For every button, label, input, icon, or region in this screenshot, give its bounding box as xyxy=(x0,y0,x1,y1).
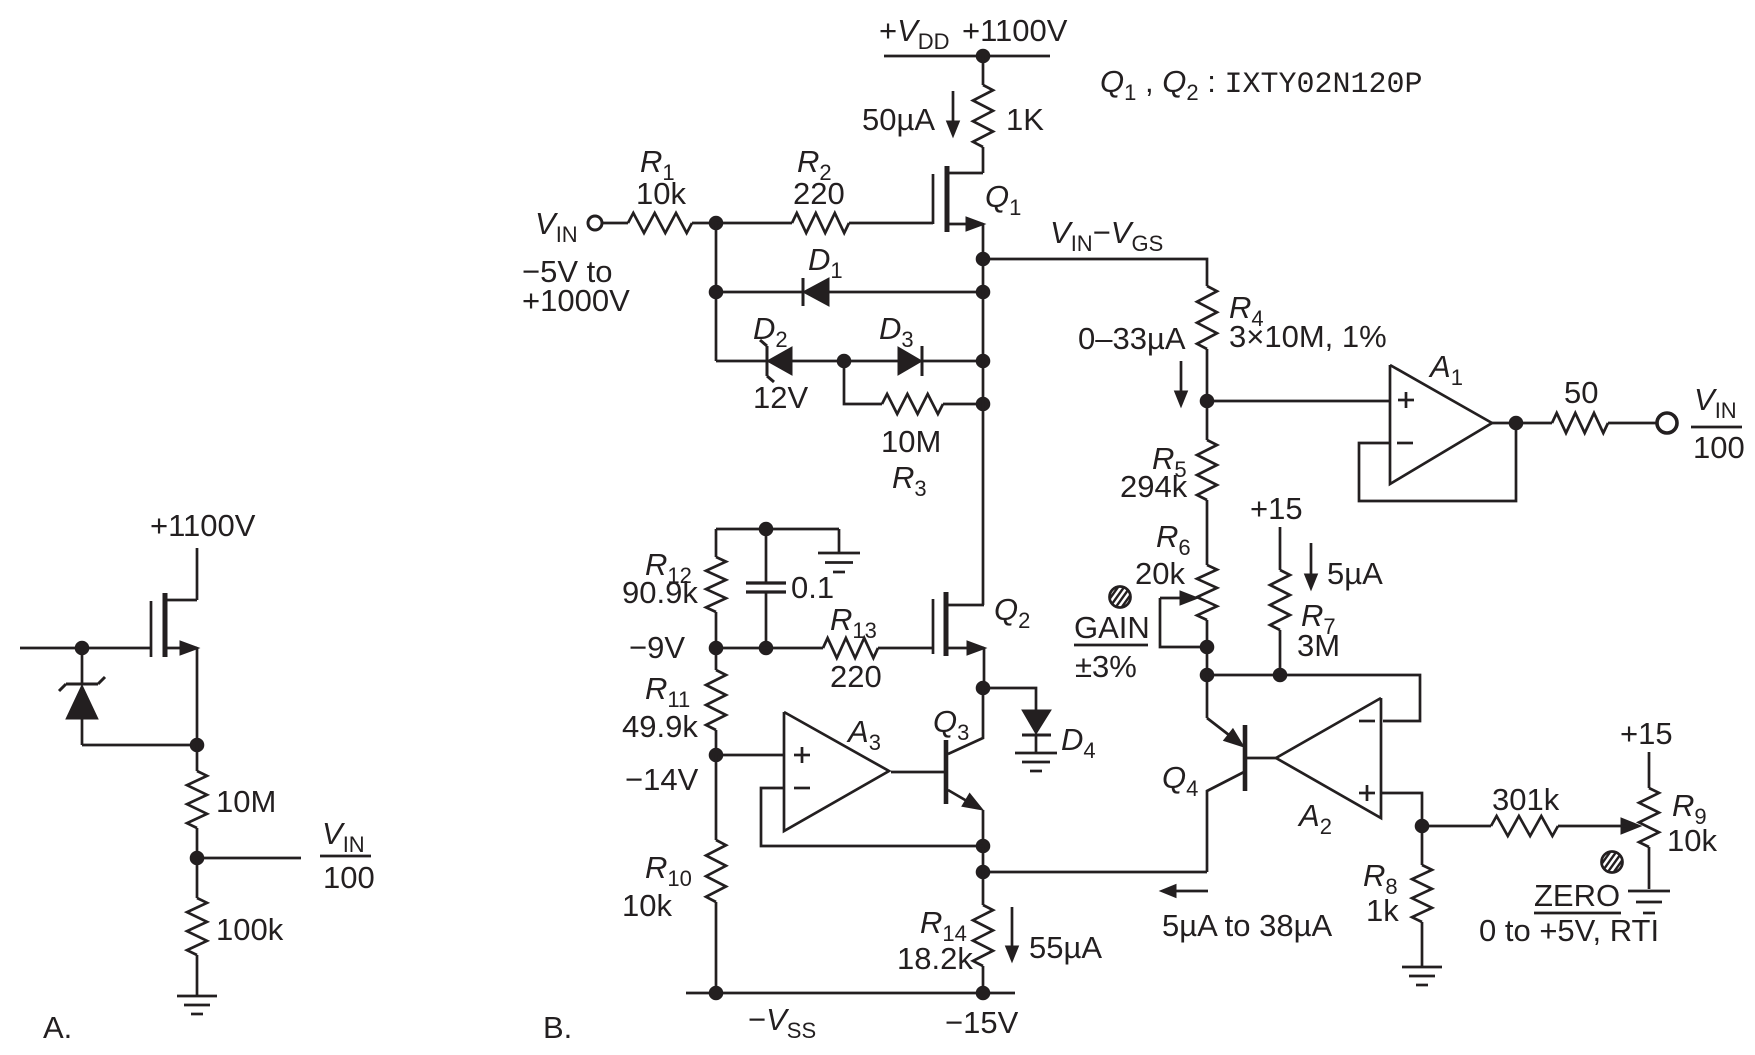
output fraction VIN/100 (B) xyxy=(1691,382,1745,465)
label R4 xyxy=(1229,290,1264,331)
MOSFET Q2 xyxy=(933,592,986,656)
resistor R7 xyxy=(1270,570,1290,630)
label R13 xyxy=(830,602,877,643)
svg-text:301k: 301k xyxy=(1492,782,1560,817)
resistor R1 xyxy=(628,213,692,233)
diode D1 xyxy=(803,278,829,306)
resistor R14 xyxy=(973,905,993,966)
label 220 (R13) xyxy=(830,659,882,694)
ground bias xyxy=(818,553,860,572)
wire R10 to rail xyxy=(715,902,718,993)
label Q4 xyxy=(1162,760,1198,801)
node +VDD rail xyxy=(976,49,990,63)
svg-text:−9V: −9V xyxy=(629,630,685,665)
label 10M xyxy=(216,784,276,819)
label R11 xyxy=(645,671,690,712)
wire Q1 source down xyxy=(982,224,985,259)
op-amp A3 xyxy=(784,712,889,831)
resistor 50 xyxy=(1552,413,1608,433)
label -14V xyxy=(625,762,699,797)
supply rail +VDD xyxy=(884,55,1050,58)
node D2/D3/R3 xyxy=(837,354,851,368)
label D3 xyxy=(879,311,914,352)
wire node to 100k xyxy=(196,858,199,898)
MOSFET Q1 xyxy=(933,166,985,232)
label R10 xyxy=(645,850,692,891)
label -15V xyxy=(945,1005,1019,1040)
wire gate input (part A) xyxy=(20,647,151,650)
wire Q4 collector to R14 node xyxy=(983,871,1207,874)
label +15 (R9) xyxy=(1620,716,1673,751)
wire R12 to -9V node xyxy=(715,612,718,648)
node A1 output xyxy=(1509,416,1523,430)
label R5 xyxy=(1152,441,1187,482)
label Q2 xyxy=(994,592,1030,633)
svg-text:+1000V: +1000V xyxy=(522,283,630,318)
label 50 xyxy=(1564,375,1598,410)
label 5uA to 38uA xyxy=(1162,908,1332,943)
wire R2 to Q1 gate xyxy=(849,222,933,225)
output fraction VIN/100 (part A) xyxy=(320,816,375,895)
wire input column down xyxy=(715,223,718,361)
wire R3 left xyxy=(844,361,882,404)
label 3x10M xyxy=(1229,319,1387,354)
resistor 100k (part A) xyxy=(187,898,207,955)
label -5V to xyxy=(522,254,613,289)
svg-text:−15V: −15V xyxy=(945,1005,1019,1040)
label 1K xyxy=(1006,102,1044,137)
wire A2 plus xyxy=(1381,793,1422,826)
label 0 to +5V RTI xyxy=(1479,913,1659,948)
resistor R13 xyxy=(823,638,878,658)
svg-text:220: 220 xyxy=(830,659,882,694)
wire top bias xyxy=(716,528,839,531)
label VIN-VGS xyxy=(1050,215,1163,256)
label 18.2k xyxy=(897,941,973,976)
label 3M xyxy=(1297,628,1340,663)
svg-text:+15: +15 xyxy=(1620,716,1673,751)
node rail left xyxy=(709,986,723,1000)
wire node to A1+ xyxy=(1207,400,1390,403)
label R14 xyxy=(920,905,967,946)
wire -9V to R13 xyxy=(716,647,823,650)
wire gnd stub xyxy=(838,529,841,552)
diode D3 xyxy=(898,346,922,376)
label 10k (R9) xyxy=(1667,823,1717,858)
label ZERO xyxy=(1534,878,1621,913)
label 55uA xyxy=(1029,930,1102,965)
node cap top xyxy=(759,522,773,536)
label 50uA xyxy=(862,102,935,137)
label 1k (R8) xyxy=(1366,893,1399,928)
wire D2 to node xyxy=(792,360,844,363)
svg-text:0 to +5V, RTI: 0 to +5V, RTI xyxy=(1479,913,1659,948)
wire rail to 1K xyxy=(982,56,985,85)
node -9V cap xyxy=(759,641,773,655)
node rail right xyxy=(976,986,990,1000)
terminal output B xyxy=(1657,413,1677,433)
svg-text:220: 220 xyxy=(793,176,845,211)
resistor R8 xyxy=(1412,865,1432,922)
node VIN-VGS xyxy=(976,252,990,266)
label 0.1 xyxy=(791,570,834,605)
current arrow 0-33uA xyxy=(1175,361,1188,407)
label 10M (R3) xyxy=(881,424,941,459)
wiper R6 xyxy=(1160,591,1207,647)
label R9 xyxy=(1672,788,1707,829)
svg-text:20k: 20k xyxy=(1135,556,1185,591)
terminal VIN xyxy=(588,216,602,230)
label D1 xyxy=(808,242,843,283)
wire FET A source down xyxy=(196,648,199,745)
label D2 xyxy=(753,311,788,352)
wire -14V to R10 xyxy=(715,755,718,840)
label R2 xyxy=(797,144,832,185)
label 100k xyxy=(216,912,284,947)
wire VIN to R1 xyxy=(602,222,628,225)
wire bus to A2 minus xyxy=(1207,675,1420,721)
wire D1 left xyxy=(716,291,803,294)
zener diode (part A) xyxy=(59,677,105,745)
potentiometer R6 xyxy=(1197,565,1217,620)
wire node to R8 xyxy=(1421,826,1424,865)
wire R7 to bus xyxy=(1279,630,1282,675)
svg-text:10k: 10k xyxy=(622,888,672,923)
screw symbol GAIN xyxy=(1101,583,1139,611)
resistor R10 xyxy=(706,840,726,902)
svg-text:90.9k: 90.9k xyxy=(622,575,698,610)
svg-text:50µA: 50µA xyxy=(862,102,935,137)
resistor R3 xyxy=(882,394,943,414)
label Q3 xyxy=(933,704,969,745)
svg-text:1k: 1k xyxy=(1366,893,1399,928)
caption A. xyxy=(43,1010,72,1045)
label 294k xyxy=(1120,469,1188,504)
label Q1 xyxy=(985,179,1021,220)
current arrow 55uA xyxy=(1006,907,1019,962)
wire D1 right xyxy=(829,291,983,294)
wire A1 feedback xyxy=(1359,423,1516,501)
svg-text:ZERO: ZERO xyxy=(1534,878,1620,913)
label R7 xyxy=(1301,598,1336,639)
svg-text:100k: 100k xyxy=(216,912,284,947)
wire Q3 emitter to R14 xyxy=(982,846,985,905)
label 301k xyxy=(1492,782,1560,817)
label 5uA xyxy=(1327,556,1383,591)
svg-text:+15: +15 xyxy=(1250,491,1303,526)
label VIN input xyxy=(535,206,578,247)
resistor R4 xyxy=(1197,286,1217,349)
label +15 (R7) xyxy=(1250,491,1303,526)
current arrow 50uA xyxy=(947,91,960,137)
node R7 bottom xyxy=(1273,668,1287,682)
wire 10M to divider node xyxy=(196,828,199,858)
wire to R12 xyxy=(715,529,718,557)
wire R1 to node xyxy=(692,222,716,225)
transistor Q4 (PNP) xyxy=(1207,675,1276,872)
node R4/R5/A1 xyxy=(1200,394,1214,408)
node source (part A) xyxy=(190,738,204,752)
wire 301k to R9 wiper xyxy=(1558,825,1622,828)
svg-text:Q1 , Q2 : IXTY02N120P: Q1 , Q2 : IXTY02N120P xyxy=(1100,64,1422,105)
wire A3 plus input xyxy=(716,754,784,757)
label 90.9k xyxy=(622,575,698,610)
wire to D4 xyxy=(983,688,1036,710)
svg-text:−14V: −14V xyxy=(625,762,699,797)
svg-text:5µA to 38µA: 5µA to 38µA xyxy=(1162,908,1332,943)
node gate/zener (part A) xyxy=(75,641,89,655)
wire R6 bottom xyxy=(1206,620,1209,675)
svg-text:3×10M, 1%: 3×10M, 1% xyxy=(1229,319,1387,354)
svg-text:3M: 3M xyxy=(1297,628,1340,663)
label D4 xyxy=(1061,722,1096,763)
wire +15 to R9 xyxy=(1648,752,1651,788)
wire output (part A) xyxy=(197,857,301,860)
svg-text:0–33µA: 0–33µA xyxy=(1078,321,1186,356)
rail -VSS xyxy=(686,992,1015,995)
resistor R5 xyxy=(1197,440,1217,500)
node D1 right xyxy=(976,285,990,299)
node R3 right xyxy=(976,397,990,411)
wire R9 to ground xyxy=(1648,847,1651,889)
wire R8 to ground xyxy=(1421,922,1424,967)
node divider (part A) xyxy=(190,851,204,865)
ground (part A) xyxy=(177,996,217,1014)
wire R13 to Q2 gate xyxy=(878,647,932,650)
op-amp A2 xyxy=(1276,698,1381,818)
label 10k (R10) xyxy=(622,888,672,923)
label +-3% xyxy=(1075,649,1137,684)
svg-text:10M: 10M xyxy=(216,784,276,819)
label +VDD xyxy=(879,13,950,54)
label -9V xyxy=(629,630,685,665)
ground R8 xyxy=(1402,967,1442,985)
caption B. xyxy=(543,1010,572,1045)
wire 100k to ground xyxy=(196,955,199,996)
op-amp A1 xyxy=(1390,365,1492,484)
label +1100V (B) xyxy=(962,13,1068,48)
svg-text:12V: 12V xyxy=(753,380,808,415)
label -VSS xyxy=(748,1002,816,1043)
node R14 top xyxy=(976,865,990,879)
svg-text:10M: 10M xyxy=(881,424,941,459)
wire R3 right xyxy=(943,403,983,406)
wire +15 to R7 xyxy=(1279,527,1282,570)
wire main column Q1-Q2 xyxy=(982,259,985,605)
label A1 xyxy=(1428,349,1463,390)
screw symbol ZERO xyxy=(1593,848,1631,876)
label A3 xyxy=(846,714,881,755)
svg-text:100: 100 xyxy=(1693,430,1745,465)
resistor R12 xyxy=(706,557,726,612)
node Q3 emitter/A3 fb xyxy=(976,839,990,853)
wire VIN-VGS to R4 xyxy=(983,259,1207,286)
wire node to R5 xyxy=(1206,401,1209,440)
wire zener to source node (part A) xyxy=(82,744,197,747)
node -14V xyxy=(709,748,723,762)
svg-text:B.: B. xyxy=(543,1010,572,1045)
svg-text:GAIN: GAIN xyxy=(1074,610,1150,645)
svg-text:+1100V: +1100V xyxy=(150,508,256,543)
node D1 left xyxy=(709,285,723,299)
wire node to 301k xyxy=(1422,825,1491,828)
part A label text +1100V xyxy=(150,508,256,543)
svg-text:294k: 294k xyxy=(1120,469,1188,504)
wire to 10M xyxy=(196,745,199,771)
wire A3 feedback xyxy=(761,788,983,846)
resistor 1K xyxy=(973,85,993,147)
svg-text:1K: 1K xyxy=(1006,102,1044,137)
label 12V xyxy=(753,380,808,415)
svg-text:10k: 10k xyxy=(1667,823,1717,858)
node Q2 source/D4 xyxy=(976,681,990,695)
wire R14 to rail xyxy=(982,966,985,993)
wiper arrow R9 xyxy=(1621,818,1641,834)
wire R4 to node xyxy=(1206,349,1209,401)
wire node to R2 xyxy=(716,222,792,225)
resistor R2 xyxy=(792,213,849,233)
node R1/R2 xyxy=(709,216,723,230)
label 220 (R2) xyxy=(793,176,845,211)
label R6 xyxy=(1156,519,1191,560)
current arrow 5uA to 38uA xyxy=(1160,885,1208,898)
resistor R11 xyxy=(706,670,726,730)
zener D2 xyxy=(760,340,792,382)
svg-text:50: 50 xyxy=(1564,375,1598,410)
node -9V left xyxy=(709,641,723,655)
label A2 xyxy=(1297,798,1332,839)
wire 50 to terminal xyxy=(1608,422,1657,425)
label R3 xyxy=(892,460,927,501)
svg-text:0.1: 0.1 xyxy=(791,570,834,605)
svg-text:5µA: 5µA xyxy=(1327,556,1383,591)
wire node to D3 xyxy=(844,360,898,363)
node A2+/R8/301k xyxy=(1415,819,1429,833)
resistor 10M (part A) xyxy=(187,771,207,828)
wire +1100V to FET A drain xyxy=(196,548,199,600)
label R1 xyxy=(640,144,675,185)
label R12 xyxy=(645,547,692,588)
svg-text:±3%: ±3% xyxy=(1075,649,1137,684)
label 49.9k xyxy=(622,709,698,744)
svg-text:49.9k: 49.9k xyxy=(622,709,698,744)
svg-text:A.: A. xyxy=(43,1010,72,1045)
node R6 wiper tie xyxy=(1200,640,1214,654)
wire -9V to R11 xyxy=(715,648,718,670)
svg-text:18.2k: 18.2k xyxy=(897,941,973,976)
potentiometer R9 xyxy=(1639,788,1659,847)
wire R11 to -14V node xyxy=(715,730,718,755)
capacitor 0.1 xyxy=(746,529,786,648)
wire D2 left xyxy=(716,360,767,363)
wire R5 to R6 xyxy=(1206,500,1209,565)
label Q1 Q2 IXTY02N120P xyxy=(1100,64,1422,105)
current arrow 5uA xyxy=(1305,543,1318,590)
svg-text:55µA: 55µA xyxy=(1029,930,1102,965)
label R8 xyxy=(1363,858,1398,899)
node R6 bottom xyxy=(1200,668,1214,682)
wire 1K to Q1 drain xyxy=(982,147,985,173)
resistor 301k xyxy=(1491,816,1558,836)
wire A1 output xyxy=(1492,422,1552,425)
ground R9 xyxy=(1628,891,1670,913)
depletion MOSFET (part A) xyxy=(151,593,199,657)
label 0-33uA xyxy=(1078,321,1186,356)
wire zener top (part A) xyxy=(81,648,84,684)
svg-text:100: 100 xyxy=(323,860,375,895)
svg-text:10k: 10k xyxy=(636,176,686,211)
svg-text:+1100V: +1100V xyxy=(962,13,1068,48)
label 10k (R1) xyxy=(636,176,686,211)
label +1000V xyxy=(522,283,630,318)
transistor Q3 (NPN) xyxy=(891,688,983,846)
node D3 right xyxy=(976,354,990,368)
label 20k xyxy=(1135,556,1185,591)
diode D4 xyxy=(1022,710,1051,753)
wire Q2 source down xyxy=(983,648,986,688)
wire D3 right xyxy=(922,360,983,363)
ground D4 xyxy=(1015,753,1057,771)
label GAIN xyxy=(1074,610,1150,645)
